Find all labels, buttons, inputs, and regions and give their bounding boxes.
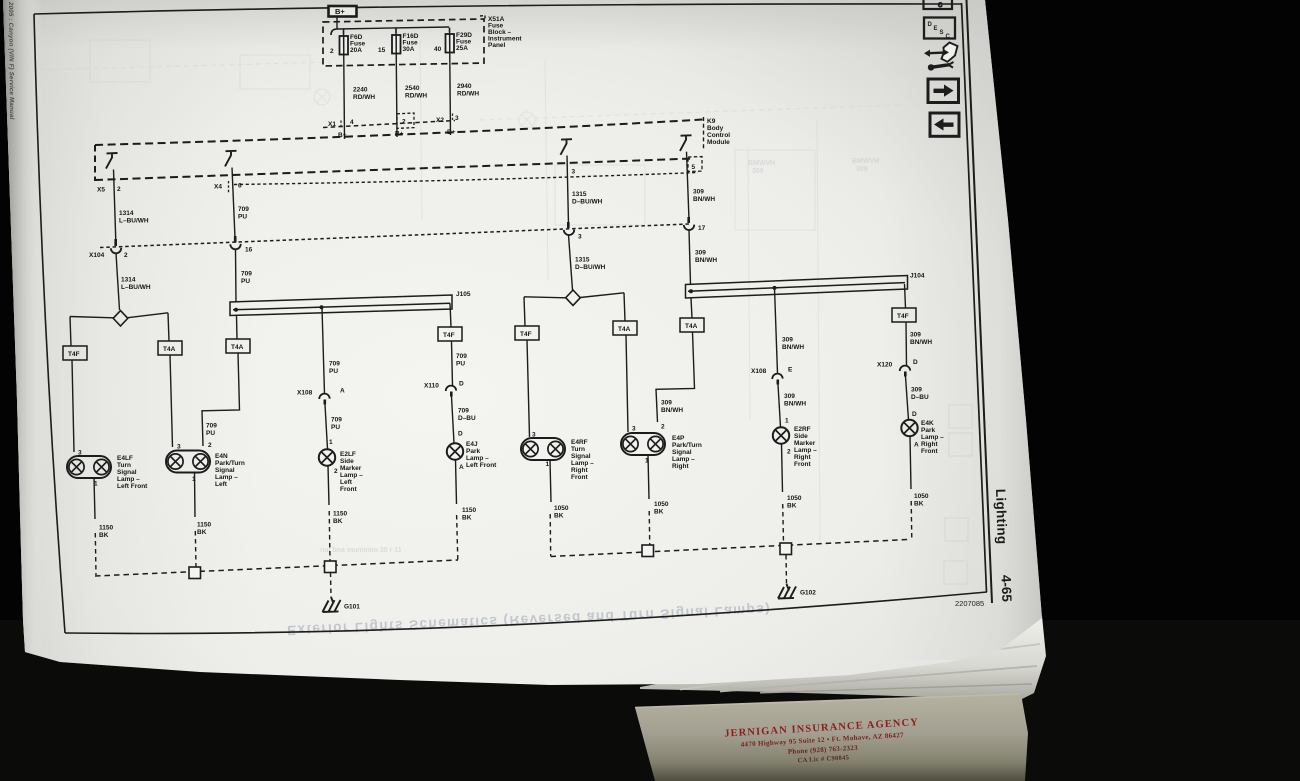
svg-text:Right: Right — [672, 463, 689, 470]
svg-text:709: 709 — [241, 271, 252, 278]
svg-text:Control: Control — [707, 132, 730, 139]
svg-text:20A: 20A — [350, 47, 362, 54]
svg-text:BN/WH: BN/WH — [661, 407, 683, 414]
svg-text:15: 15 — [378, 47, 386, 54]
svg-text:4: 4 — [350, 119, 354, 126]
svg-text:1050: 1050 — [554, 505, 569, 512]
svg-text:BK: BK — [197, 529, 207, 536]
svg-text:709: 709 — [329, 361, 340, 368]
svg-text:PU: PU — [238, 214, 247, 221]
svg-text:BMWVH: BMWVH — [748, 160, 775, 167]
svg-text:30A: 30A — [403, 46, 415, 53]
svg-text:Left Front: Left Front — [466, 462, 497, 469]
svg-text:Lamp –: Lamp – — [340, 472, 363, 479]
svg-text:D: D — [913, 359, 918, 366]
svg-text:Marker: Marker — [340, 465, 362, 472]
svg-text:E4K: E4K — [921, 420, 934, 427]
svg-text:1150: 1150 — [462, 507, 476, 514]
svg-text:B+: B+ — [395, 131, 404, 138]
svg-text:BN/WH: BN/WH — [784, 401, 806, 408]
svg-text:709: 709 — [238, 206, 249, 213]
svg-text:1050: 1050 — [787, 495, 802, 502]
svg-text:K9: K9 — [707, 118, 716, 125]
svg-text:D: D — [458, 431, 463, 438]
svg-text:17: 17 — [698, 225, 706, 232]
svg-text:D–BU/WH: D–BU/WH — [575, 264, 606, 271]
svg-text:X4: X4 — [214, 184, 222, 191]
svg-text:Front: Front — [921, 448, 938, 455]
svg-text:Signal: Signal — [571, 453, 591, 460]
svg-text:T4F: T4F — [897, 313, 909, 320]
svg-text:BK: BK — [554, 513, 564, 520]
svg-text:BK: BK — [787, 503, 797, 510]
svg-text:Right: Right — [794, 454, 811, 461]
svg-text:E: E — [934, 26, 938, 32]
svg-text:309: 309 — [661, 400, 672, 407]
svg-text:3: 3 — [572, 169, 576, 176]
svg-text:B+: B+ — [338, 132, 347, 139]
svg-text:309: 309 — [784, 393, 795, 400]
svg-text:Lamp –: Lamp – — [794, 447, 817, 454]
svg-text:1: 1 — [192, 476, 196, 483]
svg-text:D: D — [459, 381, 464, 388]
svg-text:3: 3 — [78, 450, 82, 457]
svg-text:C: C — [938, 3, 943, 9]
svg-text:E4N: E4N — [215, 453, 228, 460]
svg-text:1: 1 — [329, 439, 333, 446]
svg-text:1050: 1050 — [914, 493, 929, 500]
svg-text:A: A — [340, 388, 345, 395]
svg-text:E: E — [788, 367, 793, 374]
svg-text:J105: J105 — [456, 291, 471, 298]
svg-text:1: 1 — [785, 418, 789, 425]
svg-text:D–BU: D–BU — [458, 415, 476, 422]
svg-text:Marker: Marker — [794, 440, 816, 447]
svg-text:309: 309 — [782, 337, 793, 344]
svg-text:PU: PU — [456, 361, 465, 368]
svg-text:Park/Turn: Park/Turn — [672, 442, 702, 449]
svg-text:T4F: T4F — [443, 332, 455, 339]
svg-text:309: 309 — [695, 250, 706, 257]
svg-text:309: 309 — [911, 387, 922, 394]
svg-text:BK: BK — [654, 509, 664, 516]
svg-text:1: 1 — [645, 458, 649, 465]
svg-text:2: 2 — [330, 48, 334, 55]
svg-text:Right: Right — [571, 467, 588, 474]
svg-text:2: 2 — [787, 449, 791, 456]
svg-text:709: 709 — [456, 353, 467, 360]
svg-text:309: 309 — [752, 168, 764, 175]
svg-text:309: 309 — [856, 166, 868, 173]
svg-text:1314: 1314 — [121, 277, 136, 284]
svg-text:Signal: Signal — [215, 467, 235, 474]
svg-text:E2RF: E2RF — [794, 426, 811, 433]
svg-text:1315: 1315 — [575, 257, 590, 264]
svg-text:BK: BK — [99, 532, 109, 539]
svg-text:Panel: Panel — [488, 42, 506, 49]
svg-text:Module: Module — [707, 139, 730, 146]
svg-text:RD/WH: RD/WH — [405, 93, 427, 100]
svg-text:2: 2 — [117, 186, 121, 193]
svg-text:X5: X5 — [97, 187, 105, 194]
svg-text:Signal: Signal — [672, 449, 692, 456]
svg-text:709: 709 — [206, 423, 217, 430]
svg-text:E2LF: E2LF — [340, 451, 356, 458]
svg-text:Park/Turn: Park/Turn — [215, 460, 245, 467]
svg-text:X110: X110 — [424, 383, 439, 390]
svg-text:BN/WH: BN/WH — [782, 344, 804, 351]
svg-text:Left Front: Left Front — [117, 483, 148, 490]
svg-text:PU: PU — [329, 368, 338, 375]
svg-text:1050: 1050 — [654, 501, 669, 508]
svg-text:Side: Side — [794, 433, 808, 440]
svg-text:D–BU: D–BU — [911, 394, 929, 401]
svg-text:T4A: T4A — [231, 344, 244, 351]
svg-text:D–BU/WH: D–BU/WH — [572, 199, 603, 206]
svg-text:Left: Left — [215, 481, 228, 488]
svg-text:G101: G101 — [344, 604, 360, 611]
svg-text:RD/WH: RD/WH — [353, 94, 375, 101]
svg-text:PU: PU — [241, 278, 250, 285]
svg-text:G102: G102 — [800, 590, 816, 597]
svg-text:4-65: 4-65 — [999, 575, 1015, 603]
svg-text:D: D — [928, 22, 933, 28]
svg-text:X104: X104 — [89, 252, 105, 259]
svg-text:1: 1 — [94, 481, 98, 488]
svg-text:A: A — [914, 442, 919, 449]
svg-text:25A: 25A — [456, 45, 468, 52]
svg-text:309: 309 — [693, 189, 704, 196]
svg-text:PU: PU — [206, 430, 215, 437]
svg-text:BK: BK — [914, 501, 924, 508]
svg-text:1: 1 — [546, 461, 550, 468]
svg-text:T4A: T4A — [163, 346, 176, 353]
svg-text:Side: Side — [340, 458, 354, 465]
svg-text:2: 2 — [208, 442, 212, 449]
svg-text:16: 16 — [245, 247, 253, 254]
svg-text:X108: X108 — [297, 390, 313, 397]
svg-text:Lamp –: Lamp – — [466, 455, 489, 462]
svg-text:2540: 2540 — [405, 85, 420, 92]
svg-text:X2: X2 — [436, 117, 444, 124]
svg-text:PU: PU — [331, 424, 340, 431]
svg-text:Lamp –: Lamp – — [921, 434, 944, 441]
svg-text:E4RF: E4RF — [571, 439, 588, 446]
svg-text:BN/WH: BN/WH — [693, 196, 715, 203]
svg-text:Lamp –: Lamp – — [672, 456, 695, 463]
svg-text:Right: Right — [921, 441, 938, 448]
svg-text:2940: 2940 — [457, 83, 472, 90]
svg-text:Lamp –: Lamp – — [215, 474, 238, 481]
svg-text:3: 3 — [455, 115, 459, 122]
svg-text:Park: Park — [921, 427, 935, 434]
svg-text:Front: Front — [571, 474, 588, 481]
svg-text:2: 2 — [124, 252, 128, 259]
svg-text:1315: 1315 — [572, 191, 587, 198]
svg-text:3: 3 — [532, 432, 536, 439]
svg-text:BMWVH: BMWVH — [852, 158, 879, 165]
svg-text:B+: B+ — [447, 129, 456, 136]
svg-text:T4A: T4A — [685, 323, 698, 330]
svg-text:X120: X120 — [877, 362, 893, 369]
svg-text:E4LF: E4LF — [117, 455, 133, 462]
svg-text:Body: Body — [707, 125, 724, 132]
svg-text:E4J: E4J — [466, 441, 478, 448]
svg-text:BK: BK — [462, 515, 472, 522]
svg-text:3: 3 — [177, 444, 181, 451]
svg-text:S: S — [940, 30, 944, 36]
svg-text:L–BU/WH: L–BU/WH — [121, 284, 151, 291]
svg-text:T4A: T4A — [618, 326, 631, 333]
svg-text:1150: 1150 — [333, 511, 347, 518]
svg-text:J104: J104 — [910, 273, 925, 280]
svg-text:Lighting: Lighting — [993, 489, 1010, 545]
svg-text:2207085: 2207085 — [955, 599, 984, 608]
svg-text:C: C — [946, 34, 951, 40]
svg-text:309: 309 — [910, 332, 921, 339]
svg-text:Front: Front — [340, 486, 357, 493]
svg-text:Front: Front — [794, 461, 811, 468]
svg-text:2: 2 — [334, 468, 338, 475]
svg-text:Lamp –: Lamp – — [117, 476, 140, 483]
svg-text:2005 : Canyon (VIN F) Service: 2005 : Canyon (VIN F) Service Manual — [7, 1, 15, 120]
svg-text:L–BU/WH: L–BU/WH — [119, 218, 149, 225]
svg-text:709: 709 — [458, 408, 469, 415]
svg-text:X108: X108 — [751, 368, 767, 375]
svg-text:Left: Left — [340, 479, 353, 486]
svg-text:1150: 1150 — [99, 525, 113, 532]
svg-text:Signal: Signal — [117, 469, 137, 476]
svg-text:1150: 1150 — [197, 522, 211, 529]
svg-text:BN/WH: BN/WH — [695, 257, 717, 264]
svg-text:40: 40 — [434, 46, 442, 53]
svg-text:Park: Park — [466, 448, 480, 455]
svg-text:nui bna muminim 30 r 11: nui bna muminim 30 r 11 — [320, 547, 402, 554]
svg-text:B+: B+ — [335, 7, 345, 16]
svg-text:709: 709 — [331, 417, 342, 424]
svg-text:T4F: T4F — [68, 351, 80, 358]
svg-text:5: 5 — [692, 164, 696, 171]
svg-text:3: 3 — [632, 426, 636, 433]
svg-text:2: 2 — [661, 424, 665, 431]
svg-text:BN/WH: BN/WH — [910, 339, 932, 346]
svg-text:RD/WH: RD/WH — [457, 91, 479, 98]
svg-text:BK: BK — [333, 518, 343, 525]
svg-text:Turn: Turn — [571, 446, 585, 453]
svg-text:X1: X1 — [328, 121, 336, 128]
svg-text:Turn: Turn — [117, 462, 131, 469]
svg-text:2: 2 — [402, 119, 406, 126]
svg-text:E4P: E4P — [672, 435, 685, 442]
svg-text:Lamp –: Lamp – — [571, 460, 594, 467]
svg-text:1314: 1314 — [119, 210, 134, 217]
svg-text:2240: 2240 — [353, 87, 368, 94]
svg-text:6: 6 — [238, 183, 242, 190]
svg-text:D: D — [912, 411, 917, 418]
svg-text:3: 3 — [578, 234, 582, 241]
svg-text:A: A — [459, 464, 464, 471]
svg-text:T4F: T4F — [520, 331, 532, 338]
